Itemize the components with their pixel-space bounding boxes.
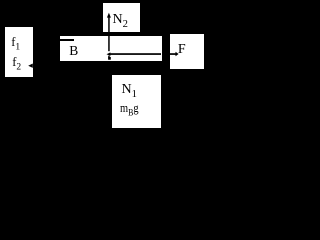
horizontal force line across bar xyxy=(110,53,161,55)
horizontal force line in F box xyxy=(170,53,176,55)
left arrowhead at junction xyxy=(107,52,111,56)
vertical line inside N2 box xyxy=(108,17,110,32)
normal force arrow N2 (vertical line + up arrowhead) xyxy=(0,0,207,133)
label box N2 xyxy=(103,3,140,32)
friction arrow line on top of bar xyxy=(60,39,74,41)
label box N1/mBg xyxy=(112,75,161,128)
label f2 xyxy=(12,56,21,69)
block B (bar) xyxy=(60,36,162,61)
label B xyxy=(69,44,78,58)
up arrowhead in N2 box xyxy=(107,13,111,18)
label N1 xyxy=(122,83,137,97)
label mBg xyxy=(120,101,139,114)
short down tail below junction xyxy=(108,56,110,60)
vertical line inside bar xyxy=(108,36,110,51)
down arrow blob xyxy=(108,57,111,60)
friction arrowhead f2 (left-pointing, at box right edge) xyxy=(0,0,1,1)
label box F xyxy=(170,34,204,69)
label f1 xyxy=(11,36,20,49)
label F xyxy=(178,43,186,57)
label N2 xyxy=(113,13,128,27)
right arrowhead of F xyxy=(176,52,179,56)
label box f1/f2 xyxy=(5,27,33,77)
